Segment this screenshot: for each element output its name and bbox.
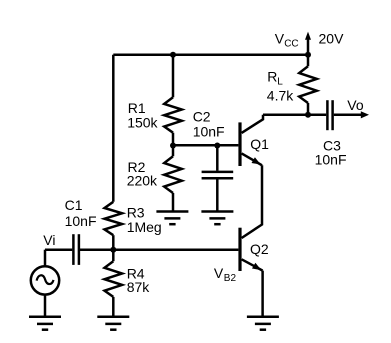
svg-text:20V: 20V: [319, 31, 345, 47]
svg-text:C1: C1: [65, 197, 83, 213]
svg-text:R: R: [267, 68, 277, 84]
svg-text:87k: 87k: [127, 279, 151, 295]
svg-text:10nF: 10nF: [65, 213, 97, 229]
svg-text:1Meg: 1Meg: [127, 219, 162, 235]
svg-text:Vo: Vo: [347, 97, 364, 113]
svg-text:L: L: [277, 76, 283, 87]
svg-text:Vi: Vi: [43, 232, 55, 248]
svg-text:10nF: 10nF: [315, 151, 347, 167]
svg-text:4.7k: 4.7k: [267, 87, 294, 103]
svg-text:CC: CC: [284, 39, 298, 50]
svg-text:B2: B2: [224, 273, 237, 284]
svg-text:10nF: 10nF: [193, 123, 225, 139]
svg-text:R1: R1: [128, 100, 146, 116]
svg-text:V: V: [214, 265, 224, 281]
svg-text:Q1: Q1: [250, 136, 269, 152]
svg-text:220k: 220k: [127, 173, 158, 189]
svg-text:C2: C2: [193, 109, 211, 125]
svg-text:Q2: Q2: [250, 241, 269, 257]
svg-text:150k: 150k: [127, 115, 158, 131]
